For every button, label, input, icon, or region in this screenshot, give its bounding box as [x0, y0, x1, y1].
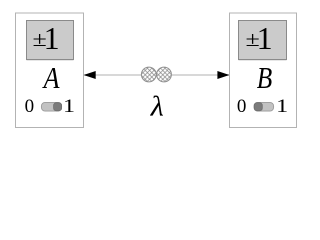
svg-text:1: 1	[63, 96, 75, 117]
left arrowhead (toward A)	[84, 71, 96, 79]
hidden variable label λ	[150, 92, 164, 123]
switch B digit 1	[276, 96, 288, 117]
switch B digit 0	[237, 96, 247, 117]
switch A knob (position 1, right)	[54, 103, 62, 111]
svg-text:0: 0	[25, 96, 34, 117]
switch A digit 0	[25, 96, 34, 117]
svg-text:1: 1	[257, 20, 273, 56]
svg-text:1: 1	[44, 20, 60, 56]
svg-text:1: 1	[276, 96, 288, 117]
svg-text:λ: λ	[150, 92, 164, 123]
right arrowhead (toward B)	[217, 71, 229, 79]
svg-text:0: 0	[237, 96, 247, 117]
instrument box B	[230, 13, 297, 128]
source particle left (crosshatched)	[141, 67, 156, 82]
svg-text:A: A	[42, 61, 60, 95]
instrument box A	[16, 13, 84, 128]
label A	[42, 61, 60, 95]
label B	[257, 61, 273, 95]
svg-text:B: B	[257, 61, 273, 95]
switch A digit 1	[63, 96, 75, 117]
display B	[239, 21, 287, 61]
display A reading ±1	[33, 20, 60, 56]
switch B slider body	[254, 102, 274, 111]
display B reading ±1	[246, 20, 273, 56]
switch B knob (position 0, left)	[254, 103, 262, 111]
display A	[27, 21, 74, 61]
signal line between boxes	[85, 74, 230, 76]
switch A slider body	[41, 102, 61, 111]
source particle right (crosshatched)	[157, 67, 172, 82]
